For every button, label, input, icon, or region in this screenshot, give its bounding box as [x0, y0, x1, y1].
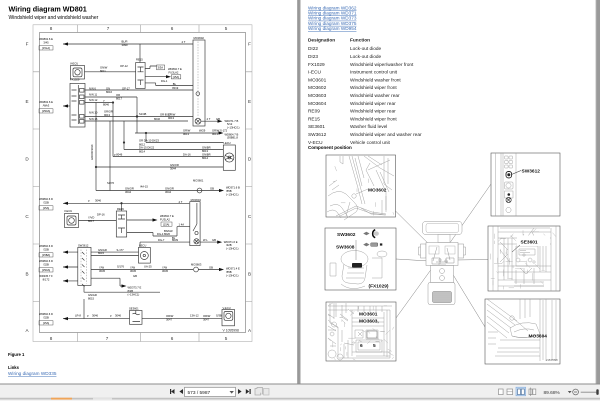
- svg-text:WD802.6 E: WD802.6 E: [39, 100, 53, 104]
- svg-text:GB: GB: [210, 187, 214, 191]
- svg-text:(~13HC/1): (~13HC/1): [227, 126, 240, 130]
- svg-text:MO3603: MO3603: [308, 93, 327, 99]
- svg-text:Windshield washer front: Windshield washer front: [350, 77, 401, 83]
- svg-text:6: 6: [171, 336, 174, 341]
- svg-text:3044: 3044: [170, 167, 176, 171]
- svg-text:V-ECU: V-ECU: [64, 209, 72, 213]
- svg-text:GN/BR: GN/BR: [202, 146, 211, 150]
- svg-text:13A-12: 13A-12: [190, 314, 199, 318]
- svg-text:WD802.7 E: WD802.7 E: [160, 214, 174, 218]
- svg-text:I-ECU: I-ECU: [308, 70, 322, 76]
- svg-text:F: F: [248, 42, 251, 47]
- svg-text:WD802.6 D: WD802.6 D: [39, 197, 53, 201]
- svg-text:6: 6: [171, 26, 174, 31]
- svg-text:MO3601: MO3601: [308, 77, 327, 83]
- svg-text:3046: 3046: [95, 199, 101, 203]
- svg-text:8039: 8039: [172, 238, 178, 242]
- svg-text:8: 8: [50, 26, 53, 31]
- svg-text:5: 5: [373, 343, 376, 349]
- svg-text:S-172: S-172: [220, 129, 228, 133]
- svg-text:LR-8: LR-8: [75, 314, 81, 318]
- svg-text:3045: 3045: [99, 269, 105, 273]
- svg-text:E: E: [248, 99, 251, 104]
- svg-text:8046: 8046: [154, 117, 160, 121]
- svg-text:S1/76: S1/76: [107, 181, 115, 185]
- svg-text:V-ECU: V-ECU: [70, 62, 78, 66]
- svg-text:Vehicle control unit: Vehicle control unit: [350, 140, 391, 146]
- svg-text:I-ECU: I-ECU: [139, 244, 146, 248]
- svg-text:Washer fluid level: Washer fluid level: [350, 124, 387, 130]
- svg-text:GB: GB: [216, 117, 220, 121]
- svg-text:/32B: /32B: [226, 243, 232, 247]
- svg-text:S-177: S-177: [117, 248, 125, 252]
- svg-text:3045: 3045: [162, 269, 168, 273]
- svg-text:(~13HC/1): (~13HC/1): [226, 247, 239, 251]
- svg-text:WD371.4 E: WD371.4 E: [226, 267, 240, 271]
- svg-text:89.68%: 89.68%: [544, 390, 561, 396]
- svg-text:Y/VD: Y/VD: [88, 216, 94, 220]
- svg-text:3045: 3045: [130, 269, 136, 273]
- svg-text:WD335.7 F: WD335.7 F: [39, 274, 53, 278]
- svg-text:S/3B: S/3B: [216, 314, 222, 318]
- svg-text:WD802.6 E: WD802.6 E: [39, 37, 53, 41]
- svg-text:[15DA]: [15DA]: [42, 268, 50, 272]
- svg-text:GB: GB: [133, 274, 137, 278]
- svg-text:OP-17: OP-17: [122, 86, 130, 90]
- svg-text:FU3LA2: FU3LA2: [169, 71, 179, 75]
- svg-text:SW3612: SW3612: [78, 243, 89, 247]
- svg-text:OR: OR: [116, 93, 120, 97]
- svg-text:3046: 3046: [115, 314, 121, 318]
- svg-text:GN/W: GN/W: [100, 66, 108, 70]
- svg-text:GR/OR: GR/OR: [104, 110, 113, 114]
- svg-text:p 8046: p 8046: [114, 153, 123, 157]
- svg-text:RE09: RE09: [308, 109, 320, 115]
- svg-text:Y/W: Y/W: [162, 265, 168, 269]
- svg-text:V 1095998: V 1095998: [223, 329, 240, 333]
- svg-text:DP-16: DP-16: [97, 213, 105, 217]
- svg-text:DA-16: DA-16: [183, 153, 191, 157]
- svg-text:Windshield wiper rear: Windshield wiper rear: [350, 109, 396, 115]
- svg-text:Y/W: Y/W: [130, 265, 136, 269]
- svg-text:BN/GR: BN/GR: [164, 229, 173, 233]
- svg-text:[15DA]: [15DA]: [42, 109, 50, 113]
- svg-text:(~13HC/1): (~13HC/1): [226, 274, 239, 278]
- svg-text:OR 8017: OR 8017: [160, 112, 171, 116]
- svg-text:9013: 9013: [183, 132, 189, 136]
- svg-text:GB: GB: [212, 238, 216, 242]
- svg-text:[15A]: [15A]: [43, 206, 50, 210]
- svg-text:MO3602: MO3602: [194, 36, 205, 40]
- svg-text:GN/OR: GN/OR: [125, 187, 134, 191]
- svg-text:8/172: 8/172: [43, 278, 50, 282]
- svg-text:[15A]: [15A]: [163, 222, 170, 226]
- svg-text:N/N 11: N/N 11: [89, 93, 98, 97]
- svg-text:Y: Y: [103, 99, 105, 103]
- svg-text:N/N 12: N/N 12: [89, 98, 98, 102]
- svg-text:E: E: [25, 99, 28, 104]
- svg-text:WD373.7 E: WD373.7 E: [128, 286, 142, 290]
- svg-text:WD802.6 D: WD802.6 D: [39, 244, 53, 248]
- svg-text:/55B: /55B: [226, 189, 232, 193]
- svg-text:WD802.7 E: WD802.7 E: [168, 67, 182, 71]
- svg-text:21537898: 21537898: [546, 358, 558, 362]
- svg-text:8014: 8014: [139, 149, 145, 153]
- svg-text:(FX1029): (FX1029): [369, 284, 389, 290]
- svg-text:Instrument control unit: Instrument control unit: [350, 70, 398, 76]
- svg-text:B: B: [25, 272, 28, 277]
- svg-text:9013: 9013: [168, 116, 174, 120]
- svg-text:FX1029: FX1029: [308, 62, 325, 68]
- svg-text:8015: 8015: [88, 297, 94, 301]
- svg-text:UA-25: UA-25: [144, 265, 152, 269]
- svg-text:N/N 10: N/N 10: [89, 111, 98, 115]
- svg-text:8046: 8046: [103, 103, 109, 107]
- svg-text:V-ECU: V-ECU: [223, 306, 231, 310]
- svg-text:MO3601: MO3601: [193, 179, 204, 183]
- svg-text:GN/OR: GN/OR: [165, 187, 174, 191]
- svg-text:Wiring diagram WD335: Wiring diagram WD335: [8, 371, 57, 376]
- svg-text:3/45: 3/45: [43, 41, 49, 45]
- svg-text:Windshield wiper/washer front: Windshield wiper/washer front: [350, 62, 414, 68]
- svg-text:GN/BR: GN/BR: [202, 153, 211, 157]
- svg-text:GN/GR: GN/GR: [88, 293, 97, 297]
- svg-text:Windshield wiper rear: Windshield wiper rear: [350, 101, 396, 107]
- svg-text:S1/4B: S1/4B: [139, 112, 147, 116]
- svg-text:Wiring diagram WD801: Wiring diagram WD801: [9, 5, 87, 14]
- svg-text:8019: 8019: [172, 86, 178, 90]
- svg-text:MO3604: MO3604: [529, 334, 548, 340]
- svg-text:MO3602: MO3602: [368, 188, 387, 194]
- svg-text:N/N 6: N/N 6: [89, 86, 96, 90]
- svg-text:BL: BL: [173, 82, 177, 86]
- svg-text:Windshield wiper and washer re: Windshield wiper and washer rear: [350, 132, 422, 138]
- svg-text:WD802.6 D: WD802.6 D: [39, 259, 53, 263]
- svg-text:FX1029: FX1029: [70, 78, 80, 82]
- svg-text:Windshield wiper front: Windshield wiper front: [350, 85, 397, 91]
- svg-text:/WA3: /WA3: [43, 104, 50, 108]
- svg-text:MO3601: MO3601: [359, 312, 378, 318]
- svg-text:/32B: /32B: [43, 316, 49, 320]
- svg-text:WD371.6 E: WD371.6 E: [224, 240, 238, 244]
- svg-text:SW3602: SW3602: [337, 232, 356, 238]
- svg-text:OR/W: OR/W: [166, 314, 174, 318]
- svg-text:8013: 8013: [202, 149, 208, 153]
- svg-text:Windshield wiper front: Windshield wiper front: [350, 116, 397, 122]
- svg-text:S/176: S/176: [117, 265, 125, 269]
- svg-text:MO3602: MO3602: [308, 85, 327, 91]
- svg-text:I-ECU: I-ECU: [223, 141, 230, 145]
- svg-text:4 T: 4 T: [182, 40, 186, 44]
- svg-text:RE09: RE09: [117, 207, 124, 211]
- svg-text:3047: 3047: [166, 318, 172, 322]
- svg-text:/32B: /32B: [43, 201, 49, 205]
- svg-text:DI22: DI22: [308, 46, 318, 52]
- svg-text:GN: GN: [106, 86, 110, 90]
- svg-text:DG-7: DG-7: [158, 238, 165, 242]
- svg-text:Lock-out diode: Lock-out diode: [350, 54, 382, 60]
- svg-text:WD371.6 B: WD371.6 B: [226, 186, 240, 190]
- svg-text:DI23: DI23: [308, 54, 318, 60]
- svg-text:3099: 3099: [122, 43, 128, 47]
- svg-text:8016: 8016: [106, 90, 112, 94]
- svg-text:MO3603: MO3603: [191, 263, 202, 267]
- svg-text:7: 7: [107, 26, 110, 31]
- svg-text:[15A]: [15A]: [173, 75, 180, 79]
- svg-text:4 T: 4 T: [207, 117, 211, 121]
- svg-text:Windshield washer rear: Windshield washer rear: [350, 93, 400, 99]
- svg-text:(~13HC/1): (~13HC/1): [226, 193, 239, 197]
- svg-text:8/2B: 8/2B: [128, 289, 134, 293]
- svg-text:3/3A: 3/3A: [158, 66, 164, 70]
- svg-text:8014: 8014: [202, 156, 208, 160]
- svg-text:MO3603,: MO3603,: [359, 319, 379, 325]
- svg-text:W/29: W/29: [199, 129, 206, 133]
- svg-text:9013: 9013: [212, 132, 218, 136]
- svg-text:F: F: [26, 42, 29, 47]
- svg-text:(~13HC1): (~13HC1): [128, 293, 140, 297]
- svg-text:GR/OR 9014: GR/OR 9014: [90, 144, 94, 160]
- svg-text:7: 7: [106, 336, 109, 341]
- svg-text:8017: 8017: [116, 97, 122, 101]
- svg-text:OR DA-10 DK23: OR DA-10 DK23: [139, 139, 159, 143]
- svg-text:3044: 3044: [125, 190, 131, 194]
- svg-text:573 / 5987: 573 / 5987: [188, 390, 211, 396]
- svg-text:DG-4: DG-4: [157, 232, 164, 236]
- svg-text:RE15: RE15: [136, 58, 143, 62]
- svg-text:9013: 9013: [104, 113, 110, 117]
- svg-text:Figure 1: Figure 1: [8, 352, 25, 357]
- svg-text:DG-1: DG-1: [161, 79, 168, 83]
- svg-text:5: 5: [225, 336, 228, 341]
- svg-text:Windshield wiper and windshiel: Windshield wiper and windshield washer: [9, 15, 99, 21]
- svg-text:DA-15 DK22: DA-15 DK22: [139, 146, 155, 150]
- svg-text:5: 5: [225, 26, 228, 31]
- svg-text:N/N 16: N/N 16: [89, 117, 98, 121]
- svg-text:Function: Function: [350, 38, 370, 44]
- svg-text:(93B91.8: (93B91.8: [227, 136, 238, 140]
- svg-text:5/12: 5/12: [227, 122, 233, 126]
- svg-text:Wiring diagram WD954: Wiring diagram WD954: [308, 26, 357, 31]
- svg-text:[15LA]: [15LA]: [42, 46, 50, 50]
- svg-text:1 4A: 1 4A: [179, 223, 185, 227]
- svg-text:MO3604: MO3604: [191, 198, 202, 202]
- svg-text:/55B: /55B: [226, 270, 232, 274]
- svg-text:8015: 8015: [98, 251, 104, 255]
- svg-text:GB: GB: [209, 265, 213, 269]
- svg-text:GN/GR: GN/GR: [98, 248, 107, 252]
- svg-text:3046: 3046: [92, 314, 98, 318]
- svg-text:8020: 8020: [164, 232, 170, 236]
- svg-text:SW3612: SW3612: [522, 169, 541, 175]
- svg-text:Y/W: Y/W: [99, 265, 105, 269]
- svg-text:SE3601: SE3601: [521, 240, 538, 246]
- svg-text:3047: 3047: [203, 318, 209, 322]
- svg-text:3044: 3044: [165, 190, 171, 194]
- svg-text:WD802.6 D: WD802.6 D: [39, 312, 53, 316]
- svg-text:SE3601: SE3601: [129, 307, 139, 311]
- svg-text:4 T: 4 T: [179, 200, 183, 204]
- svg-text:W L: W L: [203, 238, 208, 242]
- svg-text:8017: 8017: [88, 219, 94, 223]
- svg-text:[15A]: [15A]: [43, 321, 50, 325]
- svg-text:SW3608: SW3608: [336, 245, 355, 251]
- svg-text:OP-12: OP-12: [120, 64, 128, 68]
- svg-text:OR/W: OR/W: [203, 314, 211, 318]
- svg-text:BL/R: BL/R: [122, 40, 128, 44]
- svg-text:Designation: Designation: [308, 38, 335, 44]
- svg-text:MO3604: MO3604: [308, 101, 327, 107]
- svg-text:/32B: /32B: [43, 248, 49, 252]
- svg-text:Links: Links: [8, 365, 20, 370]
- svg-text:SE3601: SE3601: [308, 124, 325, 130]
- svg-text:SW3612: SW3612: [308, 132, 327, 138]
- svg-text:/32B: /32B: [43, 263, 49, 267]
- svg-text:Component position: Component position: [308, 145, 352, 150]
- svg-text:RE15: RE15: [308, 116, 320, 122]
- svg-text:FU3LA2: FU3LA2: [160, 217, 170, 221]
- svg-text:GN/OR: GN/OR: [170, 163, 179, 167]
- svg-text:8: 8: [50, 336, 53, 341]
- svg-text:8011: 8011: [100, 69, 106, 73]
- svg-text:WD371.7 B: WD371.7 B: [225, 119, 239, 123]
- svg-text:B: B: [248, 272, 251, 277]
- svg-text:Lock-out diode: Lock-out diode: [350, 46, 382, 52]
- svg-text:[15BA]: [15BA]: [42, 253, 50, 257]
- svg-text:6: 6: [360, 343, 363, 349]
- svg-text:/4A-15: /4A-15: [140, 185, 148, 189]
